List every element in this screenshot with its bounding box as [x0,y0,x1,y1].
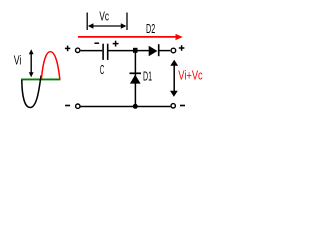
svg-text:D2: D2 [146,21,155,36]
svg-text:C: C [100,62,105,77]
wire: diode D2 to output terminal [159,50,170,52]
input waveform negative half-cycle (black) [22,76,41,108]
bottom wire [80,106,170,108]
input waveform positive half-cycle (red) [41,52,59,79]
capacitor C plates [103,44,108,60]
terminal polarity - (output bottom) [180,105,185,107]
current direction arrow (red) [78,34,183,40]
Vc dimension left tick [86,13,88,31]
terminal polarity + (output top) [179,45,185,51]
Vc dimension right tick [126,13,128,31]
svg-text:Vi+Vc: Vi+Vc [178,68,203,83]
output top terminal circle [171,48,176,53]
svg-text:D1: D1 [143,68,152,83]
Vc dimension double-headed arrow [88,23,126,28]
capacitor polarity + [113,41,119,47]
input bottom terminal circle [76,104,80,108]
terminal polarity - (input bottom) [65,105,70,107]
wire: top junction down to bottom wire [134,51,136,106]
Vi amplitude arrow (double-headed vertical) [29,49,34,77]
node: top junction (square dot) [133,48,138,53]
input top terminal circle [76,48,80,52]
output bottom terminal circle [171,104,175,108]
svg-text:Vc: Vc [99,9,109,24]
capacitor polarity - [94,42,99,44]
diode D2 symbol (horizontal, pointing right) [149,44,159,56]
wire: input top terminal to capacitor [81,50,103,52]
terminal polarity + (input top) [65,46,70,52]
input waveform axis (green zero line) [21,78,61,80]
wire: capacitor to top junction [109,50,135,52]
svg-text:Vi: Vi [14,52,22,67]
diode D1 symbol (vertical, pointing up) [130,73,142,83]
node: bottom junction (round dot) [133,104,138,109]
output voltage double-headed arrow [170,60,178,97]
wire: junction to diode D2 [137,50,150,52]
